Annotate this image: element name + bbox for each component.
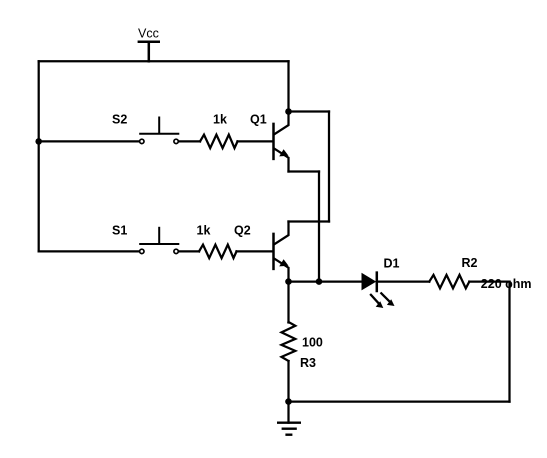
wire output row to LED (289, 280, 362, 282)
resistor R3 (282, 322, 296, 361)
wire R3 to ground node (287, 361, 289, 402)
wire left rail (38, 61, 40, 251)
transistor Q1 (274, 112, 289, 172)
resistor 1k (upper) (200, 135, 238, 148)
node Q1 collector junction (285, 108, 292, 115)
svg-text:Q1: Q1 (250, 113, 267, 127)
wire right branch down (328, 112, 330, 222)
wire bottom return (289, 400, 510, 402)
wire right side drop (508, 282, 510, 402)
node output junction at Q2 emitter (285, 278, 292, 285)
svg-text:220 ohm: 220 ohm (481, 277, 532, 291)
wire LED to R2 (377, 280, 430, 282)
node ground junction (285, 398, 292, 405)
svg-text:Q2: Q2 (234, 224, 251, 238)
wire top rail from Vcc to Q1 collector (39, 60, 289, 62)
wire left rail to S1 (39, 250, 140, 252)
svg-text:D1: D1 (384, 256, 400, 270)
svg-text:Vcc: Vcc (138, 27, 159, 41)
resistor R2 (429, 275, 469, 288)
wire S1 to R lower (179, 250, 199, 252)
resistor 1k (lower) (199, 245, 237, 258)
svg-text:S2: S2 (112, 113, 127, 127)
svg-text:1k: 1k (197, 224, 211, 238)
node junction on left rail at S2 row (35, 138, 42, 145)
ground symbol (277, 402, 301, 435)
svg-text:100: 100 (302, 335, 323, 349)
wire Q1 collector to right branch (289, 110, 330, 112)
wire R1 to Q1 base (238, 140, 273, 142)
wire right branch to Q2 collector (289, 220, 330, 222)
svg-text:R2: R2 (462, 256, 478, 270)
wire Q1 emitter drop to output node (318, 172, 320, 282)
wire left rail to S2 (39, 140, 140, 142)
switch S1 pushbutton (139, 227, 179, 254)
power Vcc symbol (138, 42, 160, 62)
transistor Q2 (274, 222, 289, 282)
wire top rail down to Q1 collector (287, 61, 289, 111)
wire R lower to Q2 base (237, 250, 273, 252)
wire output node down to R3 (287, 282, 289, 323)
wire Q1 emitter down (289, 170, 320, 172)
diode D1 LED (362, 273, 395, 308)
svg-text:S1: S1 (112, 224, 127, 238)
wire S2 to R1 (179, 140, 200, 142)
wire R2 to right corner (469, 280, 509, 282)
svg-text:1k: 1k (213, 113, 227, 127)
svg-text:R3: R3 (300, 356, 316, 370)
switch S2 pushbutton (139, 117, 179, 144)
node output junction at Q1 emitter drop (316, 278, 323, 285)
